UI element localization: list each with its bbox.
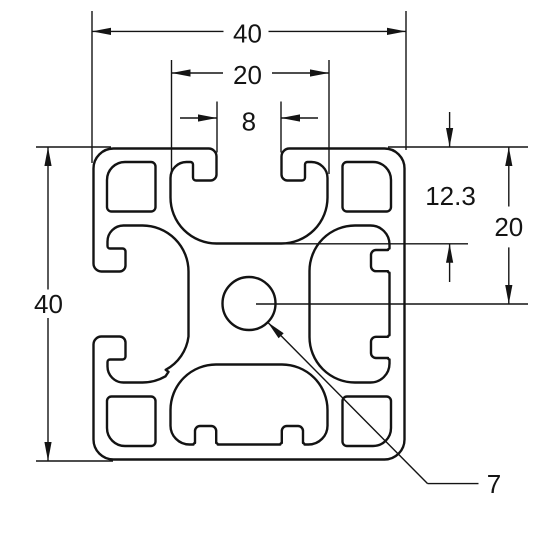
leader line horizontal — [428, 483, 479, 485]
12.3 top arrow tail — [449, 112, 451, 147]
profile outline strokes — [94, 149, 405, 460]
svg-text:7: 7 — [487, 469, 501, 499]
dim line 40 top right segment — [269, 30, 407, 32]
slot floor reference line for 12.3 dim — [282, 243, 468, 245]
bottom closed-face slot cavity — [170, 365, 327, 445]
extension line left of top 20 dim — [171, 60, 173, 174]
dim line 20 top right segment — [272, 72, 329, 74]
extension line left of top 40 dim — [91, 11, 93, 163]
arrow bottom of 12.3 dim — [446, 244, 453, 263]
arrow right of 40 top dim — [387, 28, 406, 35]
center bore hole — [223, 277, 276, 330]
extension line right of top 40 dim — [405, 11, 407, 150]
leader line diagonal to hole — [268, 322, 428, 483]
arrow of leader 7 — [268, 322, 284, 338]
dim line 40 left lower segment — [47, 318, 49, 461]
dim line 20 right lower segment — [508, 247, 510, 304]
arrow left of 40 top dim — [92, 28, 111, 35]
extension line bottom for left 40 dim — [36, 460, 113, 462]
arrow right of 8 dim — [281, 114, 300, 121]
dim line 40 left upper segment — [47, 147, 49, 290]
top-right corner cavity — [343, 162, 392, 212]
12.3 bottom arrow tail — [449, 244, 451, 282]
arrow top of 40 left dim — [44, 147, 51, 166]
top-left corner cavity — [107, 162, 156, 212]
arrow left of 8 dim — [198, 114, 217, 121]
svg-text:20: 20 — [494, 212, 523, 242]
extension line left of 8 dim — [216, 102, 218, 153]
right closed-face slot cavity — [310, 226, 390, 383]
dim line 40 top left segment — [92, 30, 224, 32]
dim line 8 right tail — [281, 117, 318, 119]
top face reference line right side — [388, 146, 528, 148]
extension line right of top 20 dim — [328, 60, 330, 174]
arrow bottom of 40 left dim — [44, 442, 51, 461]
extension line top for left 40 dim — [36, 146, 111, 148]
svg-text:20: 20 — [233, 60, 262, 90]
dim line 20 right upper segment — [508, 147, 510, 207]
svg-text:12.3: 12.3 — [425, 181, 476, 211]
extension line right of 8 dim — [280, 102, 282, 153]
arrow top of 12.3 dim — [446, 128, 453, 147]
arrow top of 20 right dim — [505, 147, 512, 166]
dim line 8 left tail — [180, 117, 217, 119]
arrow left of 20 top dim — [172, 69, 191, 76]
outer boundary of 40x40 extrusion with open T-slots top and left — [94, 149, 405, 460]
bottom-right corner cavity — [343, 397, 392, 447]
svg-text:40: 40 — [34, 289, 63, 319]
center reference line for 20 right dim — [256, 303, 528, 305]
arrow right of 20 top dim — [310, 69, 329, 76]
dim line 20 top left segment — [172, 72, 224, 74]
bottom-left corner cavity — [107, 397, 156, 447]
svg-text:8: 8 — [242, 107, 256, 137]
arrow bottom of 20 right dim — [505, 285, 512, 304]
svg-text:40: 40 — [233, 19, 262, 49]
